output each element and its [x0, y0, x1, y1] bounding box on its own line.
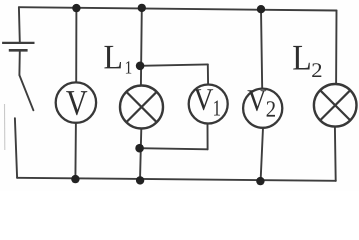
node dot bottom rail 3: [256, 177, 264, 185]
wire voltmeter V branch lower: [74, 123, 77, 179]
node dot bottom rail 2: [136, 176, 144, 184]
voltmeter V2 label: [247, 90, 274, 116]
wire left branch top: [18, 7, 21, 42]
lamp L2 label: [293, 46, 321, 77]
lamp L1 cross: [126, 92, 156, 122]
node dot L1/V1 junction: [136, 62, 145, 71]
wire right rail lower: [334, 127, 337, 181]
lamp L1 circle: [120, 86, 163, 129]
switch S1 (open blade): [19, 75, 33, 110]
voltmeter V label: [66, 91, 87, 115]
scan smudge left edge: [4, 104, 6, 150]
voltmeter V2 circle: [243, 89, 282, 128]
node dot top rail 3: [257, 5, 265, 13]
wire voltmeter V2 branch upper: [261, 9, 262, 89]
node dot bottom rail 1: [71, 175, 79, 183]
wire V1 bottom horizontal: [140, 148, 208, 149]
voltmeter V1 label: [194, 89, 220, 115]
voltmeter V circle: [56, 82, 96, 122]
wire V1 top vertical: [207, 64, 209, 84]
lamp L2 circle: [314, 84, 357, 127]
wire top rail: [19, 7, 337, 10]
wire bottom rail: [17, 178, 336, 181]
wire lamp L1 branch lower: [140, 129, 141, 181]
wire V1 bottom vertical: [207, 124, 209, 149]
wire left branch bottom: [15, 118, 17, 178]
wire node to V1 horizontal: [140, 64, 208, 65]
wire battery to switch: [18, 51, 20, 75]
wire voltmeter V branch upper: [75, 8, 77, 83]
lamp L2 cross: [320, 90, 350, 120]
wire right rail upper: [335, 11, 337, 85]
lamp L1 label: [104, 46, 131, 74]
voltmeter V1 circle: [189, 85, 228, 124]
node dot top rail 1: [72, 4, 80, 12]
wire voltmeter V2 branch lower: [261, 128, 263, 181]
wire lamp L1 branch upper: [140, 8, 143, 86]
node dot top rail 2: [138, 4, 146, 12]
node dot L1/V1 lower junction: [135, 144, 144, 153]
battery B1: [2, 43, 34, 50]
